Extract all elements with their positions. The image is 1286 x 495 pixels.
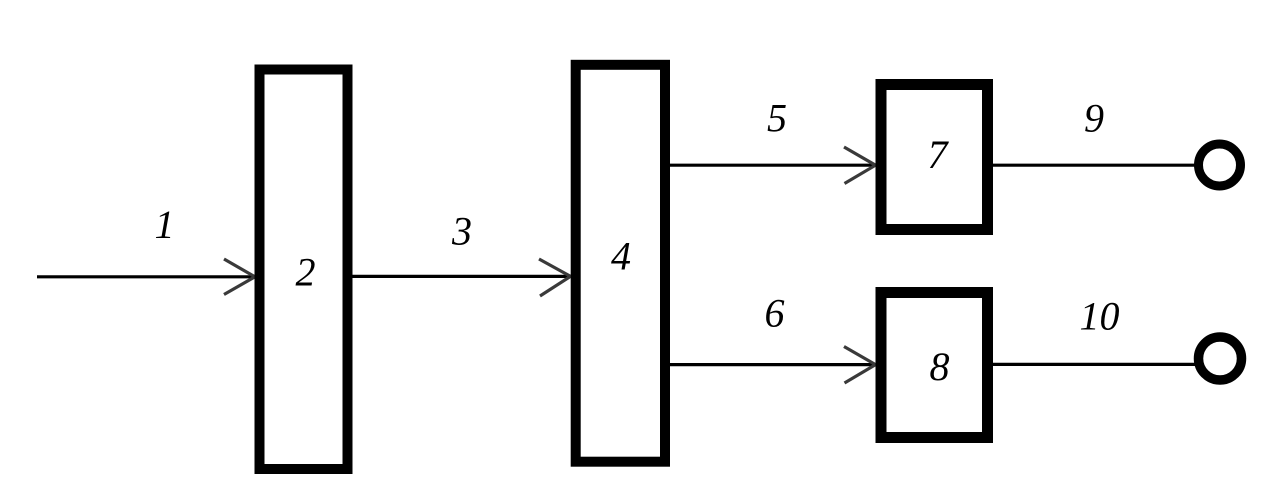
arrowhead into block 2 [224,259,255,295]
svg-text:1: 1 [155,202,175,247]
svg-text:8: 8 [930,344,950,389]
block 2 [260,70,348,470]
svg-text:5: 5 [767,96,787,141]
arrowhead into block 8 [844,347,876,384]
svg-text:3: 3 [451,209,472,254]
output terminal circle (bottom) [1199,337,1242,380]
svg-text:10: 10 [1080,294,1120,339]
svg-text:6: 6 [765,291,785,336]
svg-text:9: 9 [1084,96,1104,141]
block 8 [881,293,988,438]
wire 9 (block 7 to output terminal) [992,164,1196,167]
wire 3 (block 2 to block 4) [350,275,572,278]
output terminal circle (top) [1199,144,1241,186]
arrowhead into block 7 [844,147,876,184]
wire 10 (block 8 to output terminal) [992,363,1196,366]
svg-text:4: 4 [611,234,631,279]
wire 5 (block 4 to block 7) [668,164,877,167]
svg-text:7: 7 [928,132,950,177]
block 4 [576,65,665,462]
wire 6 (block 4 to block 8) [668,363,877,366]
svg-text:2: 2 [296,250,316,295]
wire 1 (input line to block 2) [37,275,256,278]
block 7 [881,85,988,230]
arrowhead into block 4 [539,259,571,296]
